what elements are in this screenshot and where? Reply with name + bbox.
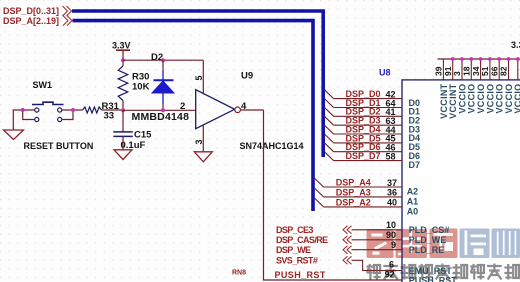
IC U8 body fill bbox=[402, 80, 520, 282]
wire node to C15 bbox=[122, 110, 124, 131]
svg-text:92: 92 bbox=[385, 270, 395, 280]
watermark logo char 5 (xun) bbox=[492, 229, 520, 259]
svg-text:PUSH_RST: PUSH_RST bbox=[409, 275, 458, 282]
junction main node bbox=[121, 108, 125, 112]
svg-text:3.3V: 3.3V bbox=[112, 40, 131, 50]
U8 top pin cut VCCIO bbox=[517, 59, 519, 80]
svg-text:6: 6 bbox=[389, 260, 394, 270]
port chevron DSP_WE bbox=[343, 246, 352, 254]
switch SW1 actuator bar bbox=[32, 102, 64, 104]
switch SW1 terminal top-right bbox=[58, 108, 62, 112]
bus entry DSP_D2 bbox=[324, 107, 333, 116]
wire DSP_CE3 bbox=[352, 229, 403, 231]
svg-text:90: 90 bbox=[386, 230, 396, 240]
svg-text:10K: 10K bbox=[132, 82, 150, 93]
svg-text:DSP_CE3: DSP_CE3 bbox=[276, 225, 313, 235]
watermark tagline (9 CJK chars imitation) bbox=[367, 264, 520, 280]
wire R30 to node bbox=[122, 101, 124, 111]
bus entry DSP_A3 bbox=[314, 188, 323, 197]
svg-text:58: 58 bbox=[385, 151, 395, 161]
bus entry DSP_D3 bbox=[324, 116, 333, 125]
bus entry DSP_D4 bbox=[324, 125, 333, 134]
bus entry DSP_A2 bbox=[314, 198, 323, 207]
wire DSP_D0 bbox=[334, 98, 402, 100]
power rail top bbox=[438, 58, 520, 60]
diode D2 bottom lead bbox=[162, 93, 164, 104]
svg-text:EMU_RST: EMU_RST bbox=[409, 266, 453, 276]
capacitor C15 bottom plate bbox=[113, 135, 133, 137]
junction D2 bottom bbox=[161, 108, 165, 112]
wire D2 bottom lead red part bbox=[162, 104, 164, 110]
ground symbol left bbox=[4, 130, 24, 140]
wire PUSH_RST down and right bbox=[264, 110, 403, 280]
svg-text:DSP_D7: DSP_D7 bbox=[346, 151, 381, 161]
wire DSP_CAS/RE bbox=[352, 239, 403, 241]
svg-text:5: 5 bbox=[194, 75, 204, 80]
bus entry chevron A bus bbox=[63, 16, 72, 26]
watermark logo char 1 (yi) bbox=[367, 229, 394, 258]
wire lower-left terminal bbox=[23, 110, 35, 120]
U8 top pin 39 VCCINT bbox=[442, 59, 444, 80]
wire DSP_D4 bbox=[334, 133, 402, 135]
capacitor C15 top plate bbox=[113, 131, 133, 133]
U8 top pin 18 VCCIO bbox=[470, 59, 472, 80]
switch SW1 terminal bottom-right bbox=[58, 117, 62, 121]
svg-text:PLD_WE: PLD_WE bbox=[409, 235, 447, 245]
wire D2 top lead red part bbox=[162, 60, 164, 71]
watermark logo char 3 (tuo) bbox=[430, 229, 458, 259]
wire DSP_WE bbox=[352, 249, 403, 251]
svg-text:U8: U8 bbox=[379, 68, 391, 78]
wire left terminal to ground bbox=[13, 110, 34, 130]
op-amp U9 triangle bbox=[196, 90, 235, 129]
svg-text:D2: D2 bbox=[151, 52, 163, 63]
wire DSP_D1 bbox=[334, 107, 402, 109]
diode D2 cathode bar bbox=[154, 79, 174, 81]
pin 3 lead bbox=[202, 125, 204, 152]
svg-text:D7: D7 bbox=[409, 160, 421, 170]
bus DSP_D[0..31] bbox=[72, 11, 323, 157]
port chevron DSP_CAS/RE bbox=[343, 236, 352, 244]
pin 5 lead bbox=[202, 60, 204, 94]
wire DSP_A4 bbox=[324, 186, 402, 188]
svg-text:37: 37 bbox=[387, 178, 397, 188]
svg-text:DSP_D[0..31]: DSP_D[0..31] bbox=[3, 6, 59, 16]
watermark logo char 4 (pei) bbox=[460, 229, 490, 259]
wire DSP_A2 bbox=[324, 206, 402, 208]
wire rail to op-amp pin5 bbox=[123, 59, 203, 61]
resistor R31 bbox=[83, 107, 102, 113]
svg-text:PUSH_RST: PUSH_RST bbox=[275, 270, 326, 280]
output bubble pin 4 bbox=[235, 107, 241, 113]
svg-text:PLD_CS#: PLD_CS# bbox=[409, 225, 450, 235]
bus entry DSP_A4 bbox=[314, 178, 323, 187]
wire DSP_A3 bbox=[324, 196, 402, 198]
svg-text:DSP_WE: DSP_WE bbox=[276, 245, 311, 255]
wire lower-right terminal bbox=[62, 110, 73, 120]
wire DSP_D7 bbox=[334, 160, 402, 162]
svg-text:10: 10 bbox=[386, 220, 396, 230]
bus DSP_A[2..19] bbox=[73, 21, 314, 211]
junction 3.3V node bbox=[121, 58, 125, 62]
power bar 3.3V bbox=[116, 49, 130, 51]
watermark logo char 2 (di) bbox=[396, 229, 428, 258]
switch SW1 terminal bottom-left bbox=[35, 117, 39, 121]
ground symbol op-amp bbox=[194, 152, 212, 162]
wire node to op-amp input bbox=[123, 109, 196, 111]
svg-text:2: 2 bbox=[180, 101, 185, 112]
ground symbol C15 bbox=[114, 150, 132, 160]
svg-text:A0: A0 bbox=[407, 207, 419, 217]
svg-text:A2: A2 bbox=[407, 187, 419, 197]
svg-text:3: 3 bbox=[194, 139, 204, 144]
U8 top pin 51 VCCIO bbox=[489, 59, 491, 80]
resistor R30 bbox=[118, 66, 128, 101]
svg-text:RESET BUTTON: RESET BUTTON bbox=[24, 141, 94, 151]
svg-text:33: 33 bbox=[104, 111, 115, 122]
wire DSP_D5 bbox=[334, 142, 402, 144]
wire DSP_D6 bbox=[334, 151, 402, 153]
svg-text:82: 82 bbox=[499, 66, 509, 76]
svg-text:36: 36 bbox=[387, 188, 397, 198]
junction D2 top bbox=[161, 58, 165, 62]
junction right bbox=[71, 108, 75, 112]
svg-text:DSP_A4: DSP_A4 bbox=[336, 177, 371, 187]
svg-text:DSP_A3: DSP_A3 bbox=[336, 187, 371, 197]
svg-text:DSP_A2: DSP_A2 bbox=[336, 197, 371, 207]
wire DSP_D3 bbox=[334, 124, 402, 126]
switch SW1 terminal top-left bbox=[35, 108, 39, 112]
wire output bbox=[240, 109, 263, 111]
wire right terminal to R31 bbox=[62, 109, 83, 111]
diode D2 top lead bbox=[162, 71, 164, 80]
bus entry DSP_D0 bbox=[324, 90, 333, 99]
diode D2 triangle bbox=[152, 81, 174, 93]
svg-text:RN8: RN8 bbox=[232, 270, 246, 277]
svg-text:SVS_RST#: SVS_RST# bbox=[276, 256, 318, 266]
svg-text:3.3V: 3.3V bbox=[511, 40, 520, 50]
svg-text:SW1: SW1 bbox=[33, 80, 53, 90]
U8 top pin 91 VCCINT bbox=[452, 59, 454, 80]
wire DSP_D2 bbox=[334, 115, 402, 117]
wire SVS_RST# jog bbox=[352, 260, 403, 270]
svg-text:9: 9 bbox=[391, 240, 396, 250]
wire R31 to node bbox=[102, 109, 123, 111]
svg-text:VCCIO: VCCIO bbox=[513, 84, 520, 114]
svg-text:U9: U9 bbox=[241, 71, 253, 82]
bus entry DSP_D1 bbox=[324, 99, 333, 108]
bus entry DSP_D7 bbox=[324, 152, 333, 161]
port chevron SVS_RST# bbox=[343, 256, 352, 264]
svg-text:A1: A1 bbox=[407, 197, 419, 207]
svg-text:DSP_CAS/RE: DSP_CAS/RE bbox=[276, 235, 328, 245]
bus entry DSP_D5 bbox=[324, 134, 333, 143]
svg-text:40: 40 bbox=[387, 198, 397, 208]
svg-text:SN74AHC1G14: SN74AHC1G14 bbox=[240, 141, 304, 151]
bus entry chevron D bus bbox=[63, 6, 72, 16]
U8 top pin 66 VCCIO bbox=[498, 59, 500, 80]
wire C15 to ground bbox=[122, 136, 124, 149]
svg-text:DSP_A[2..19]: DSP_A[2..19] bbox=[3, 16, 59, 26]
svg-text:PLD_RE: PLD_RE bbox=[409, 245, 445, 255]
U8 top pin 3 VCCIO bbox=[461, 59, 463, 80]
junction left bbox=[21, 108, 25, 112]
svg-text:MMBD4148: MMBD4148 bbox=[132, 111, 190, 123]
bus entry DSP_D6 bbox=[324, 143, 333, 152]
U8 top pin 82 VCCIO bbox=[508, 59, 510, 80]
port chevron DSP_CE3 bbox=[343, 226, 352, 234]
IC U8 border bbox=[402, 80, 520, 282]
wire 3.3V stem bbox=[122, 50, 124, 66]
U8 top pin 34 VCCIO bbox=[480, 59, 482, 80]
